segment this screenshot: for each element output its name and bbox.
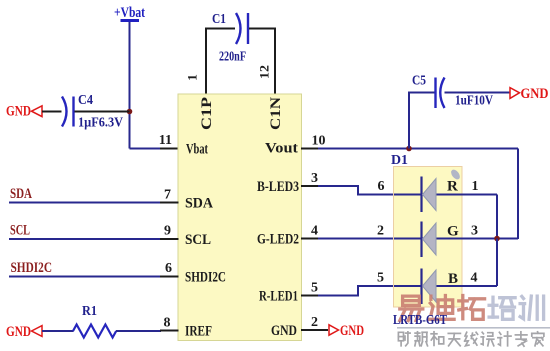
wire Vout down [517,149,519,240]
pin 8 stub [160,330,179,332]
svg-text:C5: C5 [412,74,426,89]
wire pin1 to C1 [206,29,235,95]
svg-text:C4: C4 [78,93,93,108]
ground GND (C4) [6,104,42,120]
diode R cathode (D1) [420,177,422,213]
svg-text:5: 5 [311,281,318,296]
ground GND (IC pin 2) [329,323,364,339]
watermark tagline char she2 [481,332,494,346]
svg-text:Vout: Vout [265,141,298,157]
wire Vout [318,148,518,150]
junction LED anodes [494,236,500,242]
capacitor C1 [236,13,248,44]
svg-text:10: 10 [312,134,326,149]
pin 2 stub (GND) [301,329,328,331]
wire Vbat to pin 11 [130,148,162,150]
wire G LED row [394,238,518,240]
wire C5 branch [409,93,435,149]
svg-text:B-LED3: B-LED3 [257,179,299,195]
watermark tagline char he [431,332,444,346]
svg-text:GND: GND [340,323,364,339]
pin 10 stub [301,148,319,150]
junction Vbat/C4 [127,109,133,115]
ground GND (R1) [6,324,42,340]
wire B LED row [394,285,497,287]
svg-text:11: 11 [159,133,172,148]
wire GND to C4 [42,111,62,113]
svg-text:7: 7 [164,188,171,203]
svg-text:G-LED2: G-LED2 [257,232,299,248]
svg-text:1uF10V: 1uF10V [455,94,493,109]
pin 9 stub [160,238,179,240]
svg-text:G: G [447,224,459,240]
svg-text:220nF: 220nF [219,50,246,65]
wire SCL [9,238,161,240]
watermark logo char 4 [489,297,515,319]
ground GND (C5) [510,86,549,102]
LED package D1 body [394,167,463,308]
wire C4 to junction [75,111,130,113]
watermark logo char 2 [429,296,455,320]
pin 11 stub [160,148,179,150]
watermark tagline char pin [415,332,428,346]
svg-text:1µF6.3V: 1µF6.3V [78,116,123,131]
svg-text:C1N: C1N [268,97,284,130]
svg-text:6: 6 [165,261,172,276]
wire C5 to GND [445,92,511,94]
diode R (D1) [423,179,437,211]
svg-text:12: 12 [257,65,272,79]
wire C1 to pin12 [249,29,275,95]
svg-text:2: 2 [377,224,384,239]
svg-text:R: R [447,179,458,195]
svg-text:B: B [448,271,458,287]
watermark tagline char jia [532,332,544,346]
svg-text:3: 3 [471,224,478,239]
diode G (D1) [423,223,437,255]
diode B (D1) [423,270,437,302]
watermark underline [397,327,550,329]
watermark logo char 5 [520,296,544,319]
pin 4 stub [301,238,319,240]
wire SHDI2C [9,276,161,278]
svg-text:R-LED1: R-LED1 [259,289,298,305]
pin 7 stub [160,202,179,204]
watermark tagline char zhuan [515,332,527,346]
wire G-LED2 to LED pin 2 [318,238,394,240]
svg-text:D1: D1 [391,153,408,168]
svg-text:SCL: SCL [185,232,211,248]
diode G cathode (D1) [420,222,422,258]
svg-text:LRTB-G6T: LRTB-G6T [393,313,448,328]
wire R-LED1 to LED pin 5 [318,286,394,296]
watermark logo char 3 [459,296,485,320]
diode B cathode (D1) [420,269,422,305]
watermark tagline char tian [448,333,460,345]
capacitor C4 [62,97,74,127]
wire R1 to IREF [116,330,161,332]
svg-text:GND: GND [6,324,31,340]
junction Vout/C5 [406,146,412,152]
svg-text:5: 5 [377,271,384,286]
svg-text:3: 3 [311,171,318,186]
wire GND to R1 [42,330,74,332]
svg-text:1: 1 [472,179,479,194]
svg-text:SHDI2C: SHDI2C [185,270,226,286]
svg-text:Vbat: Vbat [186,142,208,158]
svg-text:SHDI2C: SHDI2C [11,260,53,276]
svg-text:R1: R1 [82,304,97,319]
svg-text:1: 1 [185,74,200,81]
watermark tagline char she [398,332,410,346]
watermark logo char 1 [400,296,423,321]
pin 6 stub [160,276,179,278]
wire SDA [9,202,161,204]
wire Vbat stem [129,22,131,149]
IC U1 body [178,94,302,341]
wire B-LED3 to LED pin 6 [318,186,394,195]
wire B anode up [496,239,498,287]
wire R LED row [394,194,497,196]
svg-text:IREF: IREF [185,324,212,340]
resistor R1 [73,325,116,338]
svg-text:9: 9 [164,224,171,239]
capacitor C5 [436,78,445,109]
svg-text:4: 4 [471,271,478,286]
watermark tagline char xian [465,332,478,346]
svg-text:+Vbat: +Vbat [114,5,145,21]
svg-text:4: 4 [311,224,318,239]
pin 5 stub [301,295,319,297]
watermark tagline char ji [498,332,511,346]
svg-text:GND: GND [271,323,297,339]
svg-text:2: 2 [311,315,318,330]
polarity mark [449,168,461,181]
svg-text:GND: GND [521,86,549,102]
power symbol +Vbat [114,5,145,21]
svg-text:8: 8 [164,316,171,331]
svg-text:SDA: SDA [10,186,32,202]
svg-text:C1P: C1P [199,97,215,130]
wire R anode down [496,195,498,240]
svg-text:GND: GND [6,104,31,120]
svg-text:C1: C1 [212,12,226,27]
svg-text:SCL: SCL [10,223,30,239]
svg-text:6: 6 [378,179,385,194]
pin 3 stub [301,185,319,187]
svg-text:SDA: SDA [185,196,213,212]
